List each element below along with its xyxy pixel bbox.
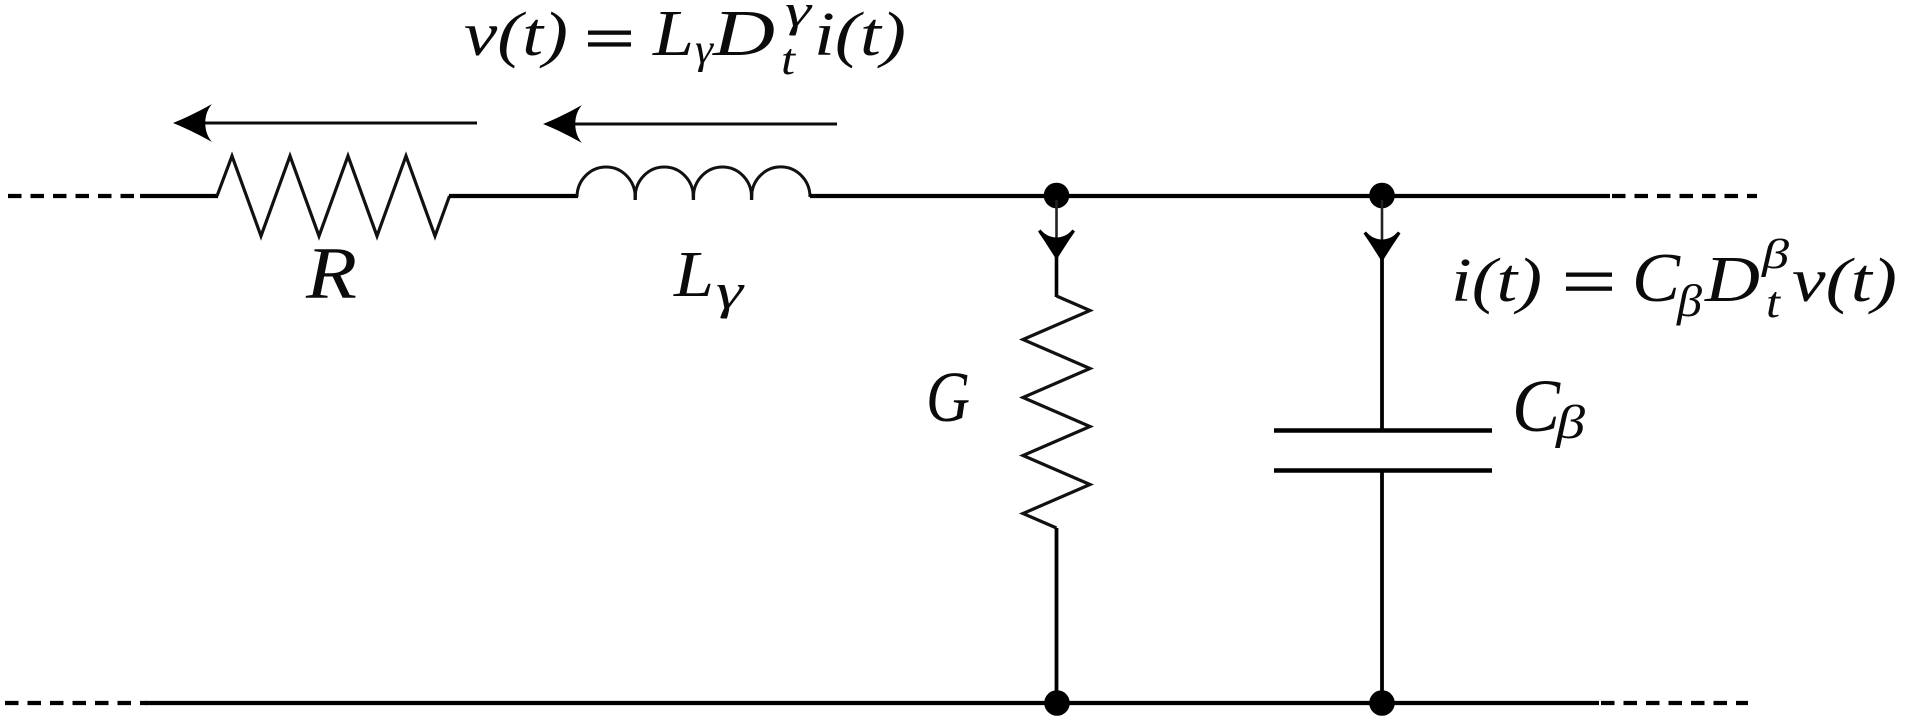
inductor L_gamma (4 humps) xyxy=(577,167,810,197)
wire: between R and inductor xyxy=(449,194,578,198)
inductor cusp stubs xyxy=(635,189,751,200)
wire: node B to capacitor top plate xyxy=(1380,254,1384,430)
resistor R (series zigzag) xyxy=(217,156,450,236)
svg-text:R: R xyxy=(305,233,357,315)
current arrow above R (pointing left) xyxy=(173,104,477,142)
svg-text:t: t xyxy=(781,35,797,84)
current arrow above inductor (pointing left) xyxy=(543,105,837,143)
svg-text:t: t xyxy=(1766,278,1782,327)
svg-text:β: β xyxy=(1555,396,1585,449)
wire: top middle from inductor across nodes xyxy=(810,194,1610,198)
node B (junction dot, top of C branch) xyxy=(1369,183,1395,209)
label: equation v(t) = L_gamma D_t^gamma i(t) xyxy=(464,0,906,84)
wire: bottom-right dashed lead xyxy=(1601,701,1748,705)
label: equation i(t) = C_beta D_t^beta v(t) xyxy=(1451,232,1897,327)
wire: capacitor bottom plate to bottom rail xyxy=(1380,470,1384,703)
svg-text:C: C xyxy=(1632,240,1681,317)
svg-text:D: D xyxy=(1704,243,1760,316)
capacitor C_beta bottom plate xyxy=(1274,468,1492,472)
svg-text:i(t): i(t) xyxy=(1451,247,1542,315)
wire: node A to G top xyxy=(1055,252,1059,297)
current arrow down at node A xyxy=(1055,200,1058,250)
node: G bottom junction dot xyxy=(1044,690,1070,716)
svg-text:G: G xyxy=(926,357,970,437)
capacitor C_beta top plate xyxy=(1274,428,1492,432)
svg-text:C: C xyxy=(1512,365,1561,448)
wire: top-left solid segment into R xyxy=(140,194,218,198)
svg-text:β: β xyxy=(1676,275,1702,326)
wire: bottom-left dashed lead xyxy=(5,701,147,705)
conductance G (shunt zigzag) xyxy=(1023,296,1090,528)
svg-text:γ: γ xyxy=(695,27,715,73)
svg-text:β: β xyxy=(1761,232,1789,278)
current arrow down at node B xyxy=(1381,200,1384,252)
node: capacitor bottom junction dot xyxy=(1369,690,1395,716)
svg-text:L: L xyxy=(673,238,714,311)
wire: top-right dashed lead xyxy=(1612,194,1757,198)
wire: G bottom to bottom rail xyxy=(1055,528,1059,703)
svg-text:v(t): v(t) xyxy=(464,1,568,69)
svg-text:i(t): i(t) xyxy=(814,1,906,69)
svg-text:v(t): v(t) xyxy=(1792,247,1897,315)
wire: bottom rail solid xyxy=(145,701,1599,705)
node A (junction dot, top of G branch) xyxy=(1044,183,1070,209)
svg-text:L: L xyxy=(652,0,694,70)
svg-text:γ: γ xyxy=(716,263,745,319)
svg-text:γ: γ xyxy=(785,0,814,36)
wire: top-left dashed lead xyxy=(8,194,140,198)
svg-text:D: D xyxy=(712,0,775,70)
